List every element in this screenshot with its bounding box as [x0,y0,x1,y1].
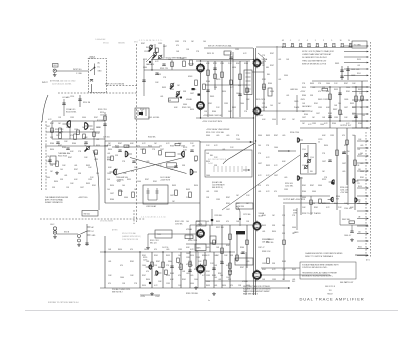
capacitor C267 [212,268,215,270]
capacitor C263 [170,266,173,268]
ground lower 1 [212,292,216,295]
resistor R153 [104,116,107,121]
svg-text:C460: C460 [107,173,111,175]
svg-text:R347: R347 [270,65,274,67]
wire curve to lower left [42,95,48,122]
capacitor C463 [238,94,241,96]
svg-text:R388 1.5K: R388 1.5K [262,251,271,253]
capacitor C482 [340,76,343,78]
tube V394B [196,264,205,275]
wire curve into x240 [236,206,240,212]
wire CH1 amp right side [199,141,201,226]
svg-text:L454: L454 [232,67,236,69]
svg-text:C206: C206 [310,157,314,159]
tube V474B [253,106,262,117]
wire V474B out [261,110,311,112]
svg-text:. . 1 . 2 . 5 . 10 . 20 . 50 .: . . 1 . 2 . 5 . 10 . 20 . 50 . 1 . 2 . 5… [137,40,163,42]
resistor R266 [204,260,207,266]
svg-text:.001: .001 [357,65,360,67]
svg-text:R433: R433 [186,189,190,191]
svg-text:GAIN: GAIN [196,247,201,250]
svg-text:R433: R433 [162,87,166,89]
svg-text:470: 470 [130,249,133,251]
svg-text:V464: V464 [258,135,262,137]
wire rail y128 [300,127,371,129]
svg-text:R454: R454 [110,185,114,187]
svg-text:DIRECT TO SWITCH TERMINALS: DIRECT TO SWITCH TERMINALS [305,255,334,258]
svg-text:470: 470 [137,146,140,148]
wire edge arrow low y203.5 [357,203,369,205]
wire x164 top [163,44,165,57]
svg-text:C437: C437 [110,193,114,195]
svg-text:Z=124: Z=124 [208,163,213,165]
svg-text:THRU 100X SEE PARTS LIST: THRU 100X SEE PARTS LIST [302,59,327,62]
svg-text:C437: C437 [46,126,50,128]
svg-text:VOLTAGE READINGS WERE OBTAI: VOLTAGE READINGS WERE OBTAINED WITH [302,264,339,267]
svg-text:-150V: -150V [300,99,306,101]
svg-text:R347: R347 [156,261,160,263]
svg-text:SEE NOTE B: SEE NOTE B [325,286,336,288]
svg-text:C339: C339 [88,179,92,181]
svg-text:R347: R347 [282,119,286,121]
svg-text:R454: R454 [190,255,194,257]
svg-text:.005: .005 [226,135,229,137]
svg-text:.001: .001 [206,191,209,193]
label clutter right output [302,135,364,209]
svg-text:+VERT SIG: +VERT SIG [78,197,88,199]
svg-text:.001: .001 [286,95,289,97]
svg-text:+225V R468 C469 10K: +225V R468 C469 10K [203,115,222,117]
svg-text:C339: C339 [70,117,74,119]
page bottom edge [25,310,398,312]
svg-text:R341: R341 [154,255,158,257]
svg-text:R366: R366 [212,111,216,113]
wire edge arrow low y255.5 [357,255,369,257]
wire y203.5 [322,203,368,205]
resistor R377 [221,248,224,254]
svg-text:R347: R347 [142,275,146,277]
ground J201b [77,243,81,246]
svg-text:R347: R347 [334,203,338,205]
svg-text:C460: C460 [66,127,70,129]
svg-text:C-040-A GHI: C-040-A GHI [95,38,106,41]
svg-text:C207: C207 [302,165,306,167]
svg-text:R454: R454 [142,285,146,287]
svg-text:470: 470 [274,191,277,193]
dashed wire coupling gang [58,92,137,94]
resistor R452 [207,70,210,76]
svg-text:R347: R347 [274,135,278,137]
wire vert grid 2 [214,61,216,90]
svg-text:R341: R341 [358,246,362,248]
labels C110A [66,108,76,114]
svg-text:R433: R433 [262,225,266,227]
tube V384A [253,220,262,231]
svg-text:R433: R433 [350,103,354,105]
svg-text:R454: R454 [222,285,226,287]
dark arm C161 [170,85,174,89]
svg-text:R366: R366 [358,123,362,125]
svg-text:RATE SEE NOTE 3: RATE SEE NOTE 3 [243,293,258,296]
svg-text:R454: R454 [190,109,194,111]
svg-text:680: 680 [266,67,269,69]
arrow into Q204 [278,150,290,152]
svg-text:R341: R341 [236,63,240,65]
svg-text:L474: L474 [262,61,266,63]
C383 cluster below tube [258,239,274,249]
transistor Q224 [329,180,335,184]
wire edge arrow y107 [352,106,369,108]
svg-text:R433: R433 [170,273,174,275]
capacitor C123 [84,142,87,144]
label clutter bottom band 2 [142,255,230,287]
svg-text:R433: R433 [216,221,220,223]
svg-text:R347: R347 [58,145,62,147]
wire x347 [346,128,348,185]
svg-text:+225V: +225V [140,296,146,298]
svg-text:.005: .005 [190,275,193,277]
coupling switch contacts [90,64,95,76]
svg-text:R341: R341 [206,271,210,273]
dashed interconnect edge [370,42,372,258]
capacitor C164 [162,64,165,66]
wire interconnect arrow y62.5 [344,62,369,64]
svg-text:.005: .005 [246,261,249,263]
svg-text:R433: R433 [172,185,176,187]
wire curve CH2 to delay [93,150,99,210]
wire edge arrow low y188 [357,187,369,189]
resistor R483 [322,88,328,91]
svg-text:R341: R341 [262,215,266,217]
wire edge arrow low y241 [357,240,369,242]
wire CH1 amp left side [104,141,106,203]
wire edge arrow low y226 [357,225,369,227]
svg-text:R454: R454 [158,267,162,269]
wire V464B down [200,109,202,118]
svg-text:R283 C283 SEL: R283 C283 SEL [186,293,198,295]
box notes [300,262,356,279]
svg-text:R433: R433 [358,89,362,91]
resistor R131b [59,128,62,133]
input coupling switch SW101 box [89,59,107,93]
labels lower amp [143,257,147,262]
wire interconnect arrow y75.4 [344,75,369,77]
resistor R167h [169,98,179,102]
svg-text:R232: R232 [322,179,326,181]
resistor R442h [349,221,355,224]
svg-text:R366: R366 [62,147,66,149]
wire edge arrow low y196 [357,195,369,197]
svg-text:R341: R341 [262,79,266,81]
capacitor C226 [342,152,345,154]
svg-text:.001: .001 [214,285,217,287]
edge arrow labels [358,139,362,249]
svg-text:.001: .001 [96,139,99,141]
capacitor C488 [354,116,357,118]
svg-text:R161 27K: R161 27K [160,68,169,70]
trimmer C163t [176,91,180,95]
svg-text:100: 100 [360,153,363,155]
svg-text:.05: .05 [282,40,284,42]
wire cross 2 [116,158,184,175]
labels CH2 amp [55,129,64,134]
wire vert grid 5 [246,61,248,110]
transistor Q133 [62,121,70,128]
wire edge arrow low y233.5 [357,233,369,235]
box T191 network [155,230,172,238]
wire mid grid rail [205,84,247,86]
resistor R242 [319,199,322,204]
transistor Q173 [190,169,197,175]
dashed shield left 2 [45,121,47,190]
svg-text:R366: R366 [240,247,244,249]
svg-text:CH 2 VOLTS/DIV: CH 2 VOLTS/DIV [100,221,114,223]
svg-text:V464: V464 [190,283,194,285]
svg-text:R370 SEL: R370 SEL [215,215,223,217]
capacitor C269 [220,262,223,264]
wire coupling down [91,84,93,93]
svg-text:SW 101: SW 101 [103,43,109,45]
transistor Q234 [353,179,359,183]
svg-text:R341: R341 [182,279,186,281]
wire edge arrow low y218.5 [357,218,369,220]
svg-text:R131: R131 [143,59,147,61]
svg-text:R454: R454 [222,91,226,93]
box switch common [352,41,367,48]
wire y295 stub [140,294,160,296]
svg-text:R454: R454 [358,186,362,188]
transistor Q163 [110,169,117,175]
svg-text:470: 470 [176,45,179,47]
capacitor C141 [66,148,69,150]
svg-text:C205: C205 [302,149,306,151]
label clutter lower right [262,215,296,281]
svg-text:C339: C339 [318,107,322,109]
capacitor C452 [213,68,216,70]
svg-text:R461: R461 [210,96,214,98]
svg-text:SWITCH SHOWN IN .05 POS: SWITCH SHOWN IN .05 POS [302,63,327,65]
resistor R163 [183,61,186,67]
svg-text:C437: C437 [163,46,167,48]
labels trigger [116,177,128,182]
wire x148 drop [147,234,149,246]
svg-text:ATTEN: ATTEN [112,229,118,232]
wire lower grid x190 [189,252,191,288]
label R393 [188,240,197,242]
labels delay drive [160,176,171,182]
norm-invert contacts [138,110,146,116]
svg-text:R433: R433 [166,255,170,257]
resistor R174h [175,143,180,145]
svg-text:470: 470 [120,265,123,267]
svg-text:C460: C460 [194,279,198,281]
svg-text:R191 C191 1.21K SEL: R191 C191 1.21K SEL [206,132,224,134]
svg-text:R141 R143: R141 R143 [58,156,67,158]
wire x230 lower [229,225,231,268]
wire main bus right [255,48,257,295]
wire x70 [69,126,71,139]
svg-text:C339: C339 [284,189,288,191]
svg-text:C460: C460 [326,83,330,85]
box R168 [166,152,176,156]
wire x284 lower [283,205,285,280]
wire y225 rail [190,224,253,226]
svg-text:R110 1M SEL: R110 1M SEL [66,112,76,114]
capacitor C101 coupling [90,80,93,82]
svg-text:R372 300: R372 300 [216,227,224,229]
svg-text:R433: R433 [86,183,90,185]
svg-text:C444 4.7: C444 4.7 [344,235,351,237]
wire CH2 rail 2 [45,145,108,147]
svg-text:R341: R341 [314,207,318,209]
svg-text:R433: R433 [334,89,338,91]
resistor R262 [162,262,165,268]
svg-text:100: 100 [107,189,110,191]
resistor R240 [310,200,313,205]
wire interconnect arrow y46 [344,45,369,47]
svg-text:PLATE: PLATE [294,106,300,109]
svg-text:10: 10 [340,40,342,42]
svg-text:V464: V464 [170,89,174,91]
resistor R476 [263,84,266,90]
svg-text:R341: R341 [142,255,146,257]
trimmer box interior details [307,145,309,173]
svg-text:R238 TO CRT PLATES: R238 TO CRT PLATES [302,212,321,215]
wire interconnect arrow y69 [344,68,369,70]
svg-text:R341: R341 [153,181,157,183]
trimmer C134 [158,55,162,59]
box trigger pickoff [236,203,253,209]
capacitor C444 [350,231,353,233]
ground CH2 [55,171,59,174]
svg-text:470: 470 [226,221,229,223]
capacitor C153 [103,124,106,126]
resistor R121 [51,128,54,133]
notes text [302,264,339,278]
transistor Q244 [328,197,334,201]
svg-text:V464: V464 [270,91,274,93]
svg-text:GEOM ADJ: GEOM ADJ [302,105,311,108]
svg-text:R454: R454 [96,145,100,147]
svg-text:C339: C339 [166,283,170,285]
wire x246 lower [245,252,247,288]
wire bus to switch row [256,46,283,48]
svg-text:C339: C339 [94,159,98,161]
wire signal rail upper [152,59,253,61]
dashed interconnect edge 2 [365,132,367,258]
wire lower grid x152 [151,252,153,288]
labels thermal bal [58,152,70,158]
wire x237 lower [236,231,238,262]
dark arm C163 [176,93,180,97]
capacitor C487 [328,116,331,118]
svg-text:R366: R366 [304,114,308,116]
svg-text:C339: C339 [334,117,338,119]
svg-text:5: 5 [331,40,332,42]
connector J101 [53,69,56,72]
svg-text:SEL 124: SEL 124 [150,242,156,244]
svg-text:C460: C460 [320,124,324,126]
svg-text:.005: .005 [282,135,285,137]
svg-text:C460: C460 [46,177,50,179]
wire CH1 amp top rail [105,140,200,142]
svg-text:470: 470 [70,135,73,137]
label clutter CH2 mass 2 [46,117,100,189]
svg-text:R454: R454 [96,127,100,129]
wire rail y87 [310,86,371,88]
svg-text:R433: R433 [157,74,161,76]
svg-text:R347: R347 [94,117,98,119]
svg-text:R347: R347 [226,197,230,199]
label R283 [186,293,198,295]
svg-text:L-R GAIN: L-R GAIN [62,96,70,99]
label clutter mid tube grid [204,49,250,113]
label R388 [262,251,271,253]
arrowhead rail y288 [288,287,290,289]
wire x172 [171,60,173,71]
wire edge arrow low y148 [357,147,369,149]
svg-text:V464: V464 [346,87,350,89]
svg-text:C460: C460 [274,147,278,149]
resistor R145 [56,161,59,167]
svg-text:470: 470 [146,271,149,273]
label L185 [146,205,157,208]
resistor R222 [346,140,349,145]
wire V394 link [195,226,197,269]
svg-text:SEL: SEL [210,155,213,157]
wire x301 down [300,177,302,215]
capacitor C144 [142,80,145,82]
svg-text:.001: .001 [64,175,67,177]
svg-text:R454: R454 [357,59,361,61]
label clutter CH2 left amp [50,123,100,185]
svg-text:R454: R454 [202,265,206,267]
svg-text:V464: V464 [168,261,172,263]
wire x297 [296,95,298,112]
svg-text:R366: R366 [72,143,76,145]
box delay line driver [143,185,168,204]
svg-text:R366: R366 [206,81,210,83]
svg-text:R442 SEL: R442 SEL [342,219,350,221]
svg-text:50 OHMS INPUT SIG IN ONLY: 50 OHMS INPUT SIG IN ONLY [302,57,328,59]
capacitor C485 [338,93,341,95]
svg-text:V464: V464 [143,67,147,69]
svg-text:C131: C131 [144,51,148,53]
wire x190 drop [189,225,191,240]
wire y203 output [283,202,330,204]
wire plate rail [196,60,250,62]
svg-text:R454: R454 [118,249,122,251]
resistor R373 [213,240,216,245]
capacitor column C481 [341,66,343,80]
capacitor C201 [85,243,88,245]
svg-text:C339: C339 [186,257,190,259]
ground lower 2 [150,292,154,295]
svg-text:C437: C437 [322,161,326,163]
svg-text:R366: R366 [302,191,306,193]
box R391 [185,235,193,239]
wire y281 [205,280,290,282]
wire y244 [186,243,230,245]
svg-text:C437: C437 [302,117,306,119]
wire x94 [93,121,95,146]
wire V474A plate [261,62,265,64]
wire J201 to coupling [57,233,78,235]
svg-text:C151 22: C151 22 [100,115,107,117]
svg-text:CH1: CH1 [53,65,56,67]
svg-text:R204 C204: R204 C204 [290,132,299,134]
wire x210 lower [209,225,211,252]
